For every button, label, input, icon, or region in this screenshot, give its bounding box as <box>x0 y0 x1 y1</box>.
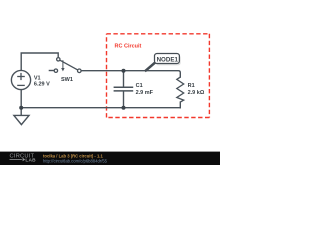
svg-text:C1: C1 <box>136 83 143 89</box>
svg-text:6.29 V: 6.29 V <box>34 81 50 87</box>
svg-text:2.9 mF: 2.9 mF <box>136 90 154 96</box>
svg-text:2.9 kΩ: 2.9 kΩ <box>188 90 205 96</box>
svg-text:LAB: LAB <box>25 158 36 164</box>
svg-text:R1: R1 <box>188 83 195 89</box>
svg-text:http://circuitlab.com/c/p6b884: http://circuitlab.com/c/p6b884dr/55 <box>43 159 108 164</box>
svg-text:SW1: SW1 <box>61 77 73 83</box>
svg-text:NODE1: NODE1 <box>157 56 179 63</box>
svg-text:RC Circuit: RC Circuit <box>115 44 142 50</box>
